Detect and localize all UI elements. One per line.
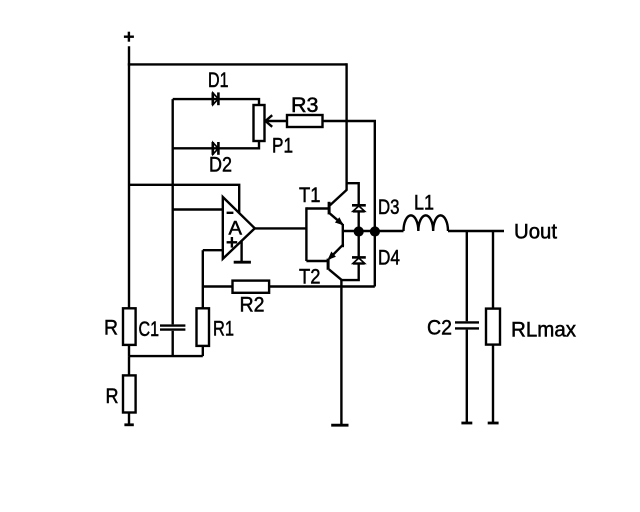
wire RLmax bottom — [492, 345, 494, 424]
diode D2 — [213, 142, 219, 155]
svg-text:D2: D2 — [209, 154, 232, 177]
wire left loop vertical — [171, 99, 173, 324]
capacitor C1 — [160, 326, 185, 330]
svg-text:D4: D4 — [378, 247, 400, 270]
svg-text:C1: C1 — [139, 318, 160, 341]
svg-text:D1: D1 — [208, 69, 229, 92]
wire op-amp inverting input — [173, 208, 223, 210]
wire D3 cathode to node — [358, 212, 360, 232]
wire D4 anode jog to T2 collector — [341, 264, 358, 281]
plus supply terminal — [124, 32, 134, 42]
wire op-amp supply — [129, 185, 239, 214]
wire C2 branch — [466, 231, 468, 321]
capacitor C2 — [455, 322, 479, 328]
wire R3 row: P1 wiper arrow — [265, 115, 287, 127]
wire op-amp non-inverting input — [203, 249, 223, 251]
wire T2 base lead — [306, 260, 327, 262]
svg-text:Uout: Uout — [514, 221, 557, 244]
diode D3 — [352, 205, 366, 211]
wire base bus — [305, 207, 307, 261]
resistor R2 — [233, 281, 270, 293]
wire D4 branch — [358, 231, 360, 256]
wire right drop to T1 collector — [345, 63, 347, 190]
potentiometer P1 — [254, 105, 265, 141]
svg-text:A: A — [229, 217, 243, 239]
wire op-amp output — [255, 227, 307, 229]
transistor T2 — [328, 231, 344, 280]
transistor T1 — [329, 190, 347, 231]
svg-text:P1: P1 — [272, 135, 293, 158]
wire D1 row — [173, 99, 259, 105]
wire L1 to output — [448, 230, 504, 232]
wire R top bottom lead — [128, 345, 130, 356]
svg-text:R2: R2 — [240, 293, 265, 316]
svg-text:C2: C2 — [427, 317, 452, 340]
svg-text:R3: R3 — [291, 94, 319, 117]
wire R1 bottom — [202, 346, 204, 356]
ground terminal R — [124, 423, 133, 426]
resistor R top — [123, 308, 136, 345]
inductor L1 — [404, 215, 448, 231]
wire non-inverting drop to R1 — [202, 250, 204, 308]
node dot output-R3R2 — [370, 226, 380, 236]
op-amp plus sign — [227, 237, 238, 248]
wire left rail — [128, 46, 130, 308]
resistor R3 — [287, 115, 323, 127]
svg-text:R1: R1 — [213, 318, 234, 341]
wire output node line — [343, 230, 404, 232]
resistor RLmax — [486, 309, 500, 345]
wire T2 collector to ground — [340, 279, 342, 425]
wire D3 branch jog — [347, 183, 359, 204]
svg-text:D3: D3 — [378, 196, 400, 219]
wire R2 to output drop — [269, 285, 375, 287]
ground terminal RLmax — [488, 422, 499, 425]
wire node to R bottom — [128, 356, 130, 375]
resistor R1 — [197, 308, 210, 346]
svg-text:T1: T1 — [299, 184, 321, 207]
svg-text:R: R — [106, 385, 119, 408]
diode D4 — [352, 257, 366, 263]
diode D1 — [213, 92, 219, 105]
op-amp lower supply pin — [234, 241, 251, 263]
wire RLmax branch — [492, 231, 494, 309]
wire D2 row — [173, 141, 259, 148]
wire node line — [129, 355, 203, 357]
resistor R bottom — [123, 375, 136, 412]
ground terminal T2 — [331, 424, 348, 427]
wire R3 to output node drop — [323, 121, 375, 287]
wire top rail — [128, 63, 347, 65]
wire T1 base lead — [306, 207, 328, 209]
wire R bottom to ground — [128, 413, 130, 425]
wire C1 bottom — [171, 331, 173, 356]
wire C2 bottom — [466, 330, 468, 424]
wire R2 row — [203, 285, 233, 287]
svg-text:RLmax: RLmax — [511, 319, 576, 342]
op-amp U1 triangle — [223, 197, 255, 259]
op-amp minus sign — [227, 212, 234, 214]
ground terminal C2 — [461, 422, 472, 425]
svg-text:T2: T2 — [299, 266, 321, 289]
svg-text:L1: L1 — [414, 192, 434, 215]
node dot output-D3D4 — [354, 226, 364, 236]
svg-text:R: R — [104, 317, 118, 340]
